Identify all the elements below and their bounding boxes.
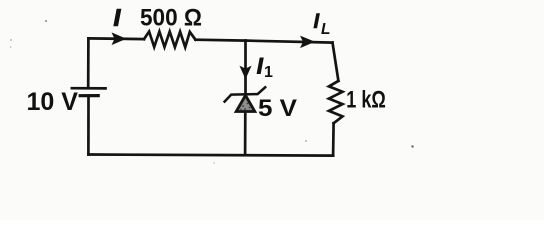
wire: right branch lower (R2 to bottom-right corner) bbox=[332, 123, 335, 155]
current arrow I (on top rail, pointing right) bbox=[112, 32, 127, 45]
wire: top rail right segment (zener node to top-right corner) bbox=[246, 41, 333, 43]
svg-text:1 kΩ: 1 kΩ bbox=[346, 86, 386, 113]
zener triangle halftone speckles bbox=[240, 103, 250, 111]
svg-text:5 V: 5 V bbox=[258, 95, 298, 122]
battery V1 positive plate (long) bbox=[72, 87, 106, 90]
wire: left branch upper (corner down to battery + plate) bbox=[87, 38, 90, 87]
svg-text:I: I bbox=[257, 53, 264, 78]
zener diode D1 cathode bar with bent tails bbox=[225, 87, 266, 101]
svg-text:I: I bbox=[114, 5, 121, 31]
svg-text:L: L bbox=[321, 21, 330, 38]
svg-text:500 Ω: 500 Ω bbox=[140, 4, 202, 31]
wire: top rail middle segment (R1 to zener node) bbox=[196, 38, 246, 42]
current arrow IL (on top rail, pointing right) bbox=[300, 36, 315, 49]
wire: zener branch upper (top rail junction down to zener cathode) bbox=[244, 41, 247, 94]
resistor R1 500 ohm zigzag bbox=[144, 32, 196, 48]
resistor R2 1 kohm zigzag bbox=[329, 81, 343, 123]
wire: zener branch lower (anode to bottom rail) bbox=[244, 112, 247, 155]
wire: top rail left segment (top-left corner to R1) bbox=[88, 37, 144, 40]
svg-text:I: I bbox=[313, 10, 320, 33]
current arrow I1 (on zener branch, pointing down) bbox=[239, 66, 251, 80]
svg-text:10 V: 10 V bbox=[27, 88, 79, 116]
zener diode D1 anode triangle (gray filled, pointing up) bbox=[236, 95, 255, 111]
wire: left branch lower (battery - plate to bottom rail) bbox=[87, 96, 90, 155]
svg-text:1: 1 bbox=[264, 64, 273, 81]
battery V1 negative plate (short) bbox=[80, 94, 98, 97]
wire: bottom rail bbox=[88, 155, 333, 156]
scan noise specks bbox=[10, 20, 414, 164]
wire: right branch upper (top-right corner down to R2) bbox=[333, 43, 339, 81]
